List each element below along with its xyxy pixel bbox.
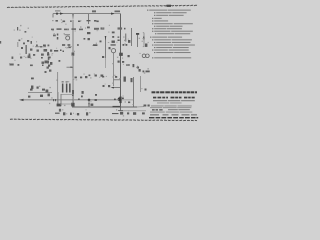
wire H87 with arrow — [112, 87, 121, 89]
node J5 on H100 — [88, 99, 91, 102]
capacitor C1 string — [84, 14, 91, 41]
wire V131 — [131, 28, 133, 46]
wire H80 — [114, 79, 122, 81]
label x99 — [100, 41, 102, 43]
wire stub left — [52, 14, 54, 18]
junction cluster U1 bottom — [57, 104, 62, 107]
ground G1 — [118, 107, 123, 111]
resistor R2 body — [72, 90, 74, 96]
wire V105 ext — [105, 58, 107, 68]
text specks field — [9, 19, 149, 116]
wire V140 — [140, 76, 142, 92]
wire V61b — [60, 94, 62, 106]
label b2 — [91, 104, 94, 106]
label Z1 — [92, 10, 96, 12]
wire H66 pointer — [67, 66, 73, 68]
junction cluster V73 bottom — [71, 103, 74, 107]
resistor string R10 R11 R12 — [62, 81, 71, 92]
arrow A7 — [105, 36, 107, 41]
wire V58b — [57, 92, 59, 106]
arrow A4 off-page left — [19, 99, 24, 101]
cluster left components — [0, 27, 52, 73]
label plus — [28, 96, 30, 98]
wire V137 — [137, 34, 139, 48]
wire V133 — [133, 77, 135, 107]
cluster right components — [102, 28, 150, 91]
junction Q2 emitter cluster — [119, 53, 123, 56]
wire H111 — [119, 110, 146, 112]
junction specks near J3 — [114, 98, 124, 101]
arrow A3 down from bus — [72, 14, 73, 21]
resistor R3 string — [57, 34, 59, 40]
junction blob V120 bottom — [119, 97, 121, 104]
wire bus — [53, 13, 114, 15]
wire rail right ext — [137, 106, 144, 108]
pointer head — [71, 66, 74, 68]
wire V57 — [57, 72, 59, 104]
tick marks on H100 left — [53, 99, 56, 101]
wire H100 ext — [121, 99, 134, 101]
label B1 — [40, 95, 43, 97]
wire V144 — [143, 33, 145, 47]
IC U1 box — [61, 95, 74, 105]
arrow A5 — [111, 87, 115, 89]
ground symbols row below rail — [55, 112, 145, 116]
node J3 — [118, 97, 122, 101]
transistor Q2 — [111, 49, 115, 53]
transistor Q1 — [66, 36, 70, 40]
label 3 below — [59, 109, 61, 112]
wire V120 — [120, 14, 122, 107]
wire H92 — [28, 92, 52, 94]
notes block — [147, 10, 195, 59]
arrow A1 on bus — [60, 12, 64, 14]
transistor Q4 — [146, 54, 150, 58]
diode string D1 — [112, 32, 120, 43]
transistor Q3 — [142, 54, 146, 58]
component row under bus — [56, 20, 97, 22]
shield line bottom (dashed) — [10, 119, 197, 121]
capacitor C2 cap mark — [136, 33, 139, 35]
wire V105 — [105, 36, 107, 58]
rail dark segment — [113, 106, 121, 108]
cluster bottom-left components — [31, 78, 97, 102]
node J1 — [56, 13, 58, 15]
shield line top (dashed) — [7, 5, 198, 7]
wire H35 — [65, 34, 71, 36]
wire rail H107 — [72, 106, 137, 108]
arrow A2 end of bus — [111, 13, 115, 15]
tag on shield line — [167, 5, 172, 7]
wire bus hook — [114, 13, 121, 15]
label L1 — [55, 10, 61, 11]
label u2 — [42, 89, 45, 91]
label W1 — [115, 11, 121, 13]
cluster rail right — [128, 102, 150, 107]
label u1 — [30, 89, 33, 91]
title block — [149, 91, 198, 118]
cluster mid components — [41, 21, 104, 79]
label row designators — [51, 27, 122, 36]
wire H100 — [22, 99, 121, 101]
wire V113 lower — [113, 53, 115, 86]
arrow A6 down — [88, 103, 89, 107]
label 99 — [93, 44, 97, 46]
wire V73 — [72, 20, 74, 107]
wire V89 drop — [88, 100, 90, 107]
